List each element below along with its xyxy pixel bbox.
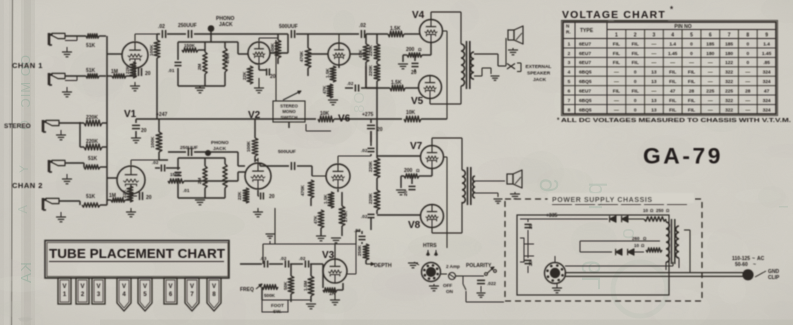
svg-text:2: 2 xyxy=(568,51,571,57)
svg-text:322: 322 xyxy=(725,70,733,76)
svg-text:0: 0 xyxy=(746,51,749,57)
svg-text:SPEAKER: SPEAKER xyxy=(527,71,551,77)
svg-text:+275: +275 xyxy=(362,112,373,118)
svg-text:47: 47 xyxy=(764,89,770,95)
svg-text:1.45: 1.45 xyxy=(762,51,772,57)
svg-text:V: V xyxy=(80,284,84,290)
svg-text:FIL: FIL xyxy=(613,41,620,47)
svg-text:~: ~ xyxy=(753,262,756,268)
svg-text:260: 260 xyxy=(632,236,640,241)
svg-text:—: — xyxy=(708,80,713,85)
svg-text:—: — xyxy=(745,99,750,104)
svg-text:—: — xyxy=(614,80,619,85)
svg-text:322: 322 xyxy=(725,98,733,104)
svg-text:20: 20 xyxy=(411,70,417,76)
svg-text:13: 13 xyxy=(651,107,657,113)
svg-text:225: 225 xyxy=(706,89,714,95)
svg-text:FIL: FIL xyxy=(632,89,639,95)
svg-text:GA-79: GA-79 xyxy=(643,144,723,169)
svg-text:FREQ: FREQ xyxy=(240,287,254,293)
svg-text:FIL: FIL xyxy=(669,107,676,113)
svg-text:0: 0 xyxy=(634,98,637,104)
svg-text:V: V xyxy=(122,284,126,290)
svg-text:FIL: FIL xyxy=(688,107,695,113)
svg-text:180: 180 xyxy=(725,51,733,57)
svg-text:122: 122 xyxy=(725,60,733,66)
svg-text:2 Amp: 2 Amp xyxy=(446,264,460,269)
svg-text:0: 0 xyxy=(634,107,637,113)
svg-text:—: — xyxy=(652,61,657,66)
svg-text:324: 324 xyxy=(763,79,771,85)
svg-text:220K: 220K xyxy=(368,64,373,76)
svg-text:50-60: 50-60 xyxy=(735,262,748,268)
svg-text:250UUF: 250UUF xyxy=(178,23,197,29)
svg-text:V: V xyxy=(168,284,172,290)
svg-text:500UUF: 500UUF xyxy=(279,24,298,30)
svg-text:—: — xyxy=(652,52,657,57)
svg-text:FIL: FIL xyxy=(632,60,639,66)
svg-text:FIL: FIL xyxy=(669,79,676,85)
svg-text:0: 0 xyxy=(746,41,749,47)
svg-text:FIL: FIL xyxy=(688,98,695,104)
svg-text:R.: R. xyxy=(566,30,571,35)
svg-text:22K: 22K xyxy=(242,71,247,80)
svg-text:185: 185 xyxy=(706,41,714,47)
svg-text:—: — xyxy=(670,61,675,66)
svg-text:1: 1 xyxy=(615,33,618,39)
svg-text:47K: 47K xyxy=(313,215,318,224)
svg-text:500UUF: 500UUF xyxy=(278,149,296,155)
svg-text:CHAN 1: CHAN 1 xyxy=(12,61,43,70)
svg-text:1: 1 xyxy=(568,41,571,47)
svg-text:CHAN 2: CHAN 2 xyxy=(12,181,43,190)
svg-text:1.5M: 1.5M xyxy=(303,281,308,291)
svg-text:—: — xyxy=(708,99,713,104)
svg-text:51K: 51K xyxy=(86,194,96,200)
svg-text:2: 2 xyxy=(634,33,637,39)
svg-text:220K: 220K xyxy=(368,192,373,204)
svg-text:47: 47 xyxy=(670,89,676,95)
svg-text:V6: V6 xyxy=(338,114,351,125)
svg-text:.01: .01 xyxy=(168,68,175,73)
svg-text:Ω: Ω xyxy=(418,47,422,52)
svg-text:.85: .85 xyxy=(763,60,770,66)
svg-text:FIL: FIL xyxy=(669,98,676,104)
svg-text:+335: +335 xyxy=(546,213,557,219)
svg-text:2M: 2M xyxy=(197,177,202,184)
svg-text:0: 0 xyxy=(634,79,637,85)
svg-text:0: 0 xyxy=(690,51,693,57)
svg-text:22K: 22K xyxy=(237,191,242,200)
svg-text:TYPE: TYPE xyxy=(580,28,594,34)
svg-text:V: V xyxy=(212,284,216,290)
svg-text:10K: 10K xyxy=(406,110,416,116)
svg-text:.02: .02 xyxy=(347,81,354,86)
svg-text:6: 6 xyxy=(709,33,712,39)
svg-text:10: 10 xyxy=(634,243,640,248)
svg-text:220K: 220K xyxy=(368,44,373,56)
svg-text:220K: 220K xyxy=(368,160,373,172)
svg-text:I: I xyxy=(776,205,791,210)
svg-text:HTRS: HTRS xyxy=(423,243,437,249)
svg-text:—: — xyxy=(689,61,694,66)
svg-text:JACK: JACK xyxy=(213,146,227,152)
svg-text:V: V xyxy=(96,284,100,290)
svg-text:0: 0 xyxy=(746,60,749,66)
svg-text:—: — xyxy=(614,108,619,113)
svg-text:FIL: FIL xyxy=(632,51,639,57)
svg-text:13: 13 xyxy=(651,98,657,104)
svg-text:0: 0 xyxy=(690,41,693,47)
svg-text:47K: 47K xyxy=(322,85,327,94)
svg-text:2M: 2M xyxy=(197,63,202,70)
svg-text:6L: 6L xyxy=(576,260,606,291)
svg-text:20: 20 xyxy=(528,223,533,229)
svg-text:TUBE PLACEMENT CHART: TUBE PLACEMENT CHART xyxy=(49,246,225,261)
svg-text:1.5K: 1.5K xyxy=(323,194,328,204)
svg-text:FIL: FIL xyxy=(613,89,620,95)
svg-text:20: 20 xyxy=(146,195,152,201)
svg-text:13: 13 xyxy=(651,70,657,76)
svg-text:—: — xyxy=(614,99,619,104)
svg-text:500K: 500K xyxy=(264,293,276,298)
svg-text:1.45: 1.45 xyxy=(668,51,678,57)
svg-text:1.5K: 1.5K xyxy=(325,68,330,78)
svg-text:4: 4 xyxy=(671,33,674,39)
svg-text:DEPTH: DEPTH xyxy=(374,263,392,269)
svg-text:—: — xyxy=(652,90,657,95)
svg-text:100K: 100K xyxy=(270,42,275,54)
svg-text:200: 200 xyxy=(404,168,413,174)
svg-text:28: 28 xyxy=(689,89,695,95)
svg-text:3: 3 xyxy=(653,33,656,39)
svg-text:FIL: FIL xyxy=(688,70,695,76)
svg-text:V: V xyxy=(62,284,66,290)
svg-text:AC: AC xyxy=(757,256,765,262)
svg-text:7: 7 xyxy=(568,98,571,104)
svg-text:322: 322 xyxy=(725,107,733,113)
svg-text:20: 20 xyxy=(141,128,147,134)
svg-text:13: 13 xyxy=(651,79,657,85)
svg-text:6BQ5: 6BQ5 xyxy=(579,70,592,76)
svg-text:POWER SUPPLY CHASSIS: POWER SUPPLY CHASSIS xyxy=(552,197,653,204)
svg-text:250: 250 xyxy=(656,208,664,213)
svg-text:VOLTAGE CHART: VOLTAGE CHART xyxy=(562,9,666,21)
svg-text:7: 7 xyxy=(728,33,731,39)
svg-text:FIL: FIL xyxy=(613,51,620,57)
svg-text:225: 225 xyxy=(725,89,733,95)
svg-text:MONO: MONO xyxy=(282,109,296,114)
svg-text:FIL: FIL xyxy=(688,79,695,85)
svg-text:6EU7: 6EU7 xyxy=(579,89,591,95)
svg-text:ON: ON xyxy=(446,289,454,294)
svg-text:51K: 51K xyxy=(86,68,96,74)
svg-text:20: 20 xyxy=(269,194,275,200)
svg-text:FIL: FIL xyxy=(613,60,620,66)
svg-text:470K: 470K xyxy=(300,184,305,196)
svg-text:185: 185 xyxy=(725,41,733,47)
svg-text:Y: Y xyxy=(17,165,31,174)
svg-text:STEREO: STEREO xyxy=(4,123,31,130)
svg-text:6EU7: 6EU7 xyxy=(579,41,591,47)
svg-text:EXTERNAL: EXTERNAL xyxy=(526,64,552,70)
svg-text:200: 200 xyxy=(406,47,415,53)
svg-text:.02: .02 xyxy=(361,148,368,153)
svg-text:.02: .02 xyxy=(359,23,366,29)
svg-text:51K: 51K xyxy=(86,43,96,49)
svg-text:324: 324 xyxy=(763,107,771,113)
svg-text:PIN NO: PIN NO xyxy=(674,24,691,30)
svg-text:9: 9 xyxy=(765,33,768,39)
svg-text:.03: .03 xyxy=(260,256,267,261)
svg-text:47K: 47K xyxy=(358,49,363,58)
svg-text:5: 5 xyxy=(568,79,571,85)
svg-text:5: 5 xyxy=(690,33,693,39)
svg-text:1.4: 1.4 xyxy=(763,41,770,47)
svg-text:STEREO: STEREO xyxy=(280,104,298,109)
svg-text:—: — xyxy=(745,80,750,85)
svg-text:9: 9 xyxy=(534,178,564,193)
svg-text:20: 20 xyxy=(145,71,151,77)
svg-text:V5: V5 xyxy=(411,96,424,107)
svg-text:JACK: JACK xyxy=(533,77,547,83)
svg-text:6BQ5: 6BQ5 xyxy=(579,98,592,104)
svg-text:.02: .02 xyxy=(299,256,306,261)
svg-text:8: 8 xyxy=(746,33,749,39)
svg-text:0: 0 xyxy=(634,70,637,76)
svg-text:20: 20 xyxy=(528,260,533,266)
svg-text:V: V xyxy=(190,284,194,290)
svg-text:4: 4 xyxy=(568,70,571,76)
svg-text:.02: .02 xyxy=(152,160,159,165)
svg-text:—: — xyxy=(708,108,713,113)
svg-text:28: 28 xyxy=(745,89,751,95)
svg-text:10: 10 xyxy=(643,208,649,213)
svg-text:POLARITY: POLARITY xyxy=(466,263,492,269)
svg-text:3: 3 xyxy=(568,60,571,66)
svg-text:JACK: JACK xyxy=(219,22,233,28)
svg-text:FIL: FIL xyxy=(669,70,676,76)
svg-text:.02: .02 xyxy=(158,24,165,30)
svg-text:1.4: 1.4 xyxy=(669,41,676,47)
svg-text:Ω: Ω xyxy=(416,168,420,173)
svg-text:250K: 250K xyxy=(357,244,362,256)
svg-text:ALL DC VOLTAGES MEASURED TO: ALL DC VOLTAGES MEASURED TO CHASSIS WITH… xyxy=(561,118,792,124)
svg-text:22K: 22K xyxy=(125,65,130,74)
svg-text:8: 8 xyxy=(568,107,571,113)
svg-text:6EU7: 6EU7 xyxy=(579,51,591,57)
svg-text:20: 20 xyxy=(270,74,276,80)
svg-text:324: 324 xyxy=(763,70,771,76)
svg-text:50K: 50K xyxy=(283,281,288,290)
svg-text:O8: O8 xyxy=(351,92,368,114)
svg-text:OFF: OFF xyxy=(443,283,452,288)
svg-text:.02: .02 xyxy=(280,256,287,261)
svg-text:6BQ5: 6BQ5 xyxy=(579,79,592,85)
svg-text:V1: V1 xyxy=(124,109,137,120)
svg-text:100K: 100K xyxy=(246,140,251,152)
svg-text:20: 20 xyxy=(403,190,409,196)
svg-text:250UUF: 250UUF xyxy=(180,145,198,151)
svg-text:470K: 470K xyxy=(225,52,230,64)
svg-text:SW.: SW. xyxy=(273,309,281,314)
svg-text:6: 6 xyxy=(568,89,571,95)
svg-text:A: A xyxy=(15,205,30,215)
svg-text:+247: +247 xyxy=(156,112,167,118)
svg-text:100K: 100K xyxy=(150,136,156,148)
svg-text:270K: 270K xyxy=(343,210,348,222)
svg-text:V7: V7 xyxy=(410,141,423,152)
svg-text:SWITCH: SWITCH xyxy=(281,115,298,120)
svg-text:100K: 100K xyxy=(149,44,155,56)
svg-text:.01: .01 xyxy=(183,188,190,193)
svg-text:324: 324 xyxy=(763,98,771,104)
svg-text:20: 20 xyxy=(377,127,383,133)
svg-text:—: — xyxy=(708,61,713,66)
svg-text:470K: 470K xyxy=(299,50,304,62)
svg-text:22K: 22K xyxy=(122,189,127,198)
svg-text:180: 180 xyxy=(706,51,714,57)
svg-text:FOOT: FOOT xyxy=(271,303,284,308)
svg-text:V4: V4 xyxy=(412,10,425,21)
svg-text:.02: .02 xyxy=(361,214,368,219)
svg-text:V: V xyxy=(143,284,147,290)
svg-text:6BQ5: 6BQ5 xyxy=(579,107,592,113)
svg-text:51K: 51K xyxy=(88,156,98,162)
svg-text:6EU7: 6EU7 xyxy=(579,60,591,66)
svg-text:—: — xyxy=(745,108,750,113)
svg-text:—: — xyxy=(652,42,657,47)
svg-text:—: — xyxy=(708,71,713,76)
svg-text:—: — xyxy=(614,71,619,76)
svg-text:1M: 1M xyxy=(109,193,116,199)
svg-text:FIL: FIL xyxy=(632,41,639,47)
svg-text:KA: KA xyxy=(18,262,35,284)
svg-text:CLIP: CLIP xyxy=(768,275,780,281)
svg-text:PHONO: PHONO xyxy=(211,140,229,146)
svg-text:.022: .022 xyxy=(487,281,496,286)
svg-text:V8: V8 xyxy=(408,220,421,231)
svg-text:322: 322 xyxy=(725,79,733,85)
svg-text:—: — xyxy=(745,71,750,76)
